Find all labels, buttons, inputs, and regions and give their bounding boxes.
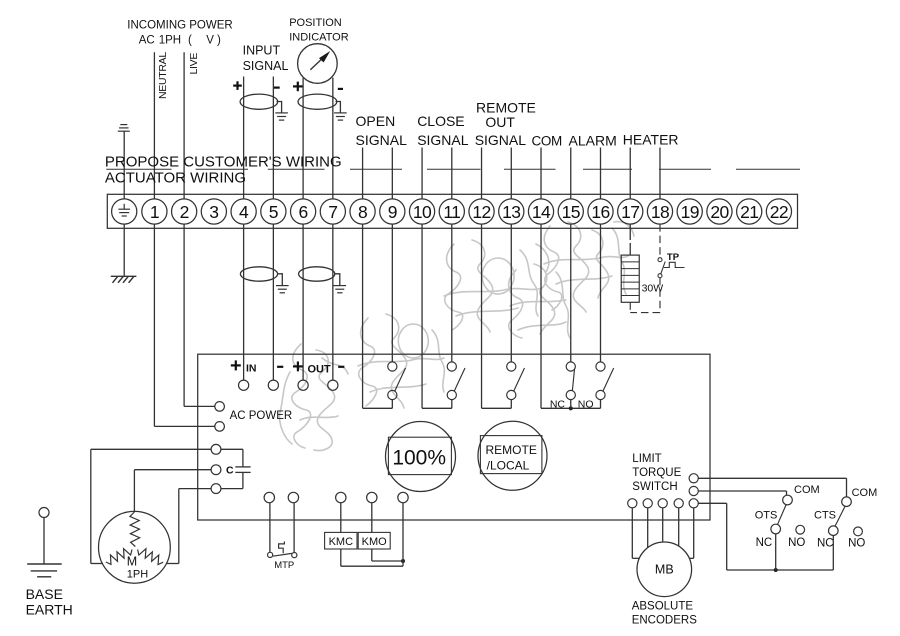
svg-text:MB: MB	[655, 563, 674, 577]
svg-text:20: 20	[710, 202, 729, 222]
svg-text:4: 4	[239, 202, 249, 222]
svg-text:10: 10	[413, 202, 432, 222]
svg-text:NO: NO	[578, 398, 594, 410]
svg-text:8: 8	[358, 202, 367, 222]
svg-text:COM: COM	[852, 487, 878, 499]
svg-text:SIGNAL: SIGNAL	[356, 132, 408, 148]
svg-text:LIVE: LIVE	[188, 53, 200, 75]
svg-text:100%: 100%	[392, 446, 446, 469]
svg-text:1PH: 1PH	[127, 569, 148, 581]
svg-text:REMOTE: REMOTE	[486, 443, 537, 457]
svg-text:INPUT: INPUT	[243, 44, 281, 58]
svg-text:14: 14	[532, 202, 551, 222]
svg-text:NC: NC	[550, 398, 566, 410]
svg-text:KMC: KMC	[329, 536, 354, 548]
svg-text:LIMIT: LIMIT	[632, 453, 661, 465]
svg-text:EARTH: EARTH	[26, 602, 73, 618]
svg-text:6: 6	[299, 202, 308, 222]
svg-text:11: 11	[443, 202, 460, 222]
svg-text:ABSOLUTE: ABSOLUTE	[632, 600, 694, 612]
svg-text:22: 22	[770, 202, 788, 222]
svg-text:18: 18	[651, 202, 669, 222]
svg-text:CLOSE: CLOSE	[417, 113, 464, 129]
svg-text:TP: TP	[667, 252, 680, 263]
svg-text:OPEN: OPEN	[356, 113, 396, 129]
svg-text:PROPOSE CUSTOMER'S WIRING: PROPOSE CUSTOMER'S WIRING	[105, 153, 342, 170]
svg-text:2: 2	[180, 202, 189, 222]
svg-text:POSITION: POSITION	[289, 17, 342, 29]
svg-text:12: 12	[472, 202, 490, 222]
svg-text:NEUTRAL: NEUTRAL	[157, 52, 169, 99]
svg-text:OUT: OUT	[485, 114, 515, 130]
svg-text:IN: IN	[246, 362, 257, 374]
svg-text:SIGNAL: SIGNAL	[243, 59, 289, 73]
svg-text:AC POWER: AC POWER	[230, 410, 293, 422]
svg-text:15: 15	[562, 202, 580, 222]
svg-text:TORQUE: TORQUE	[632, 467, 681, 479]
svg-text:CTS: CTS	[814, 510, 836, 522]
svg-text:COM: COM	[532, 133, 562, 148]
svg-text:M: M	[127, 554, 137, 568]
svg-text:OUT: OUT	[307, 364, 331, 376]
svg-text:COM: COM	[794, 484, 820, 496]
svg-text:HEATER: HEATER	[623, 132, 679, 148]
svg-text:ALARM: ALARM	[569, 132, 617, 148]
svg-text:NC: NC	[756, 537, 773, 549]
svg-text:INDICATOR: INDICATOR	[289, 31, 349, 43]
svg-text:3: 3	[209, 202, 218, 222]
svg-text:INCOMING POWER: INCOMING POWER	[127, 20, 232, 32]
svg-text:ACTUATOR WIRING: ACTUATOR WIRING	[105, 170, 246, 187]
svg-text:NO: NO	[848, 538, 865, 550]
svg-text:17: 17	[621, 202, 639, 222]
svg-text:1: 1	[150, 202, 159, 222]
svg-text:NC: NC	[817, 538, 834, 550]
svg-text:NO: NO	[788, 537, 805, 549]
svg-text:21: 21	[740, 202, 758, 222]
svg-text:5: 5	[269, 202, 278, 222]
svg-text:7: 7	[328, 202, 337, 222]
svg-text:13: 13	[502, 202, 520, 222]
svg-text:SIGNAL: SIGNAL	[475, 132, 527, 148]
svg-text:MTP: MTP	[274, 560, 294, 571]
svg-text:C: C	[226, 465, 234, 477]
svg-text:19: 19	[681, 202, 699, 222]
svg-text:BASE: BASE	[26, 586, 63, 602]
svg-text:16: 16	[591, 202, 609, 222]
svg-text:9: 9	[388, 202, 397, 222]
svg-text:/LOCAL: /LOCAL	[487, 458, 530, 472]
svg-text:OTS: OTS	[755, 510, 778, 522]
svg-text:SIGNAL: SIGNAL	[417, 132, 469, 148]
svg-text:AC1PH(V): AC1PH(V)	[139, 35, 221, 47]
svg-text:KMO: KMO	[362, 536, 388, 548]
svg-text:ENCODERS: ENCODERS	[632, 614, 698, 626]
svg-text:SWITCH: SWITCH	[632, 481, 677, 493]
